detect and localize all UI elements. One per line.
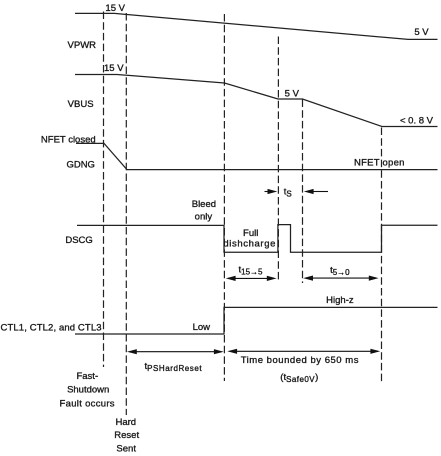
svg-text:CTL1, CTL2, and CTL3: CTL1, CTL2, and CTL3 [1,323,102,334]
dashed line D5 (start t5-0) [302,100,304,284]
svg-text:Time bounded by 650 ms: Time bounded by 650 ms [241,355,359,366]
tS left arrow [265,191,271,193]
VPWR waveform [75,13,438,39]
t5-0 dimension arrow [306,277,377,279]
svg-text:5 V: 5 V [285,88,300,99]
svg-text:Fast-: Fast- [76,371,98,382]
CTL waveform [75,307,438,334]
GDNG waveform [76,143,438,169]
svg-text:VBUS: VBUS [68,99,94,110]
dashed line D4 (end t15-5) [277,37,279,283]
DSCG waveform [77,225,438,253]
svg-text:Hard: Hard [116,417,137,428]
svg-text:dishcharge: dishcharge [223,238,276,249]
svg-text:Fault occurs: Fault occurs [60,398,115,409]
svg-text:Sent: Sent [116,444,136,455]
svg-text:< 0. 8 V: < 0. 8 V [400,116,434,127]
dashed line D6 (Safe0V reached) [381,128,383,385]
svg-text:DSCG: DSCG [65,235,92,246]
svg-text:15 V: 15 V [104,63,124,74]
svg-text:Shutdown: Shutdown [67,385,109,396]
dashed line D3 (discharge start) [223,14,225,381]
svg-text:GDNG: GDNG [66,160,95,171]
Time bounded dimension arrow [230,350,379,352]
svg-text:NFET closed: NFET closed [41,134,96,145]
svg-text:15 V: 15 V [105,3,125,14]
dashed line D1 (Fast-Shutdown Fault occurs) [103,12,105,368]
svg-text:only: only [195,211,213,222]
tPSHardReset dimension arrow [129,351,222,353]
svg-text:Bleed: Bleed [192,199,216,210]
VBUS waveform [75,75,438,127]
svg-text:NFET open: NFET open [354,158,405,169]
svg-text:Reset: Reset [114,430,139,441]
svg-text:VPWR: VPWR [68,40,97,51]
svg-text:Low: Low [193,322,211,333]
t15-5 dimension arrow [228,277,274,279]
dashed line D2 (Hard Reset Sent) [125,13,127,415]
svg-text:High-z: High-z [326,295,354,306]
tS right arrow [312,191,328,193]
svg-text:5 V: 5 V [414,27,429,38]
